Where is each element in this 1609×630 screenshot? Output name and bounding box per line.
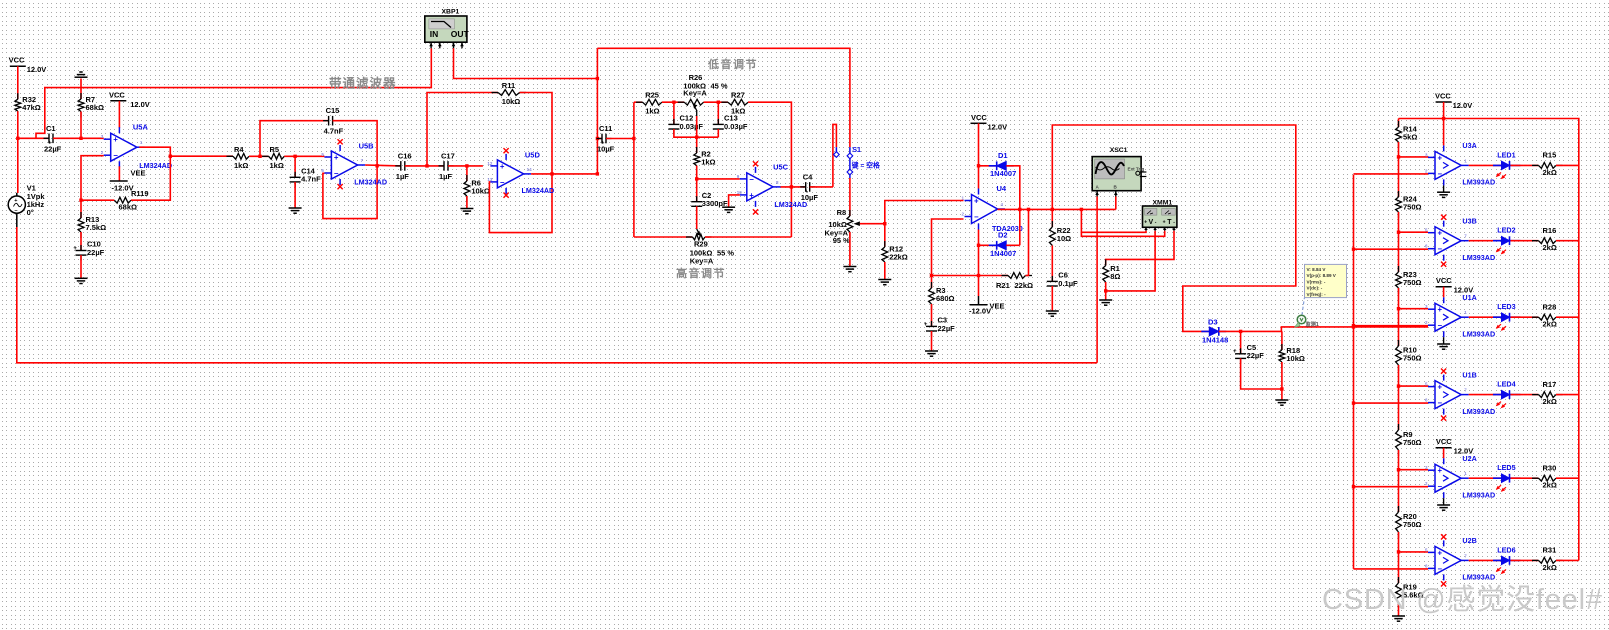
- capacitor C4: [800, 172, 818, 202]
- resistor R12: [882, 241, 908, 268]
- wire: [729, 195, 740, 207]
- no-connect X: [1441, 581, 1446, 586]
- junction: [930, 274, 933, 277]
- wire: [1051, 209, 1053, 227]
- svg-text:−: −: [1438, 321, 1443, 330]
- svg-text:+: +: [334, 153, 339, 162]
- svg-text:+: +: [1233, 349, 1237, 355]
- wire: [696, 206, 698, 229]
- wire: [1219, 327, 1428, 332]
- capacitor C1: [44, 124, 62, 154]
- wire: [489, 93, 552, 233]
- wire: [705, 236, 791, 238]
- wire: [884, 224, 886, 247]
- wire gnd stem: [1443, 498, 1445, 505]
- svg-text:2kΩ: 2kΩ: [1543, 481, 1557, 490]
- svg-text:LM393AD: LM393AD: [1462, 253, 1495, 262]
- junction: [1352, 485, 1355, 488]
- svg-text:VCC: VCC: [9, 56, 25, 65]
- svg-text:−: −: [1438, 169, 1443, 178]
- wire: [1443, 448, 1445, 459]
- wire: [1469, 316, 1502, 318]
- junction: [596, 77, 599, 80]
- label treble title: [676, 266, 726, 280]
- svg-text:R31: R31: [1543, 546, 1557, 555]
- svg-text:LM393AD: LM393AD: [1462, 573, 1495, 582]
- resistor R32: [15, 93, 41, 117]
- no-connect X: [1441, 262, 1446, 267]
- svg-text:C11: C11: [599, 124, 612, 133]
- svg-text:+: +: [749, 191, 754, 200]
- wire: [80, 232, 82, 251]
- op-amp U2A: [1425, 458, 1469, 498]
- ground: [925, 351, 938, 356]
- VCC symbol: [971, 113, 1008, 132]
- wire gnd stem: [1443, 337, 1445, 344]
- svg-text:键 = 空格: 键 = 空格: [851, 160, 880, 169]
- wire: [139, 147, 170, 156]
- svg-text:+: +: [14, 198, 17, 204]
- capacitor C6: [1047, 271, 1078, 292]
- wire: [294, 156, 296, 177]
- svg-text:R17: R17: [1543, 380, 1557, 389]
- capacitor C2: [691, 191, 728, 212]
- junction: [1397, 384, 1400, 387]
- svg-text:45 %: 45 %: [711, 81, 728, 90]
- wire: [1399, 119, 1579, 561]
- wire: [1469, 164, 1502, 166]
- wire: [1511, 240, 1539, 242]
- op-amp U3B: [1425, 221, 1469, 261]
- svg-text:12.0V: 12.0V: [130, 100, 150, 109]
- svg-text:750Ω: 750Ω: [1403, 438, 1422, 447]
- wire: [18, 137, 49, 139]
- svg-text:4.7nF: 4.7nF: [301, 175, 321, 184]
- svg-text:D2: D2: [998, 231, 1008, 240]
- svg-text:R21: R21: [996, 281, 1010, 290]
- label LED6: [1497, 545, 1515, 554]
- wire: [466, 196, 468, 209]
- switch S1: [834, 145, 880, 178]
- wire: [80, 79, 82, 100]
- wire: [1556, 164, 1579, 166]
- no-connect X: [504, 193, 509, 198]
- LED LED3: [1493, 313, 1521, 331]
- junction: [1027, 208, 1030, 211]
- resistor R6: [464, 175, 490, 202]
- wire: [810, 186, 833, 188]
- wire gnd stem: [1443, 185, 1445, 192]
- label LED5: [1497, 463, 1515, 472]
- wire: [365, 164, 401, 167]
- wire: [704, 101, 728, 103]
- wire: [849, 178, 851, 216]
- label bass title: [707, 57, 758, 71]
- wire: [1398, 142, 1400, 197]
- svg-text:680Ω: 680Ω: [936, 294, 955, 303]
- svg-text:R8: R8: [837, 208, 847, 217]
- svg-text:T: T: [1167, 219, 1172, 226]
- wire: [979, 275, 1009, 277]
- LED LED1: [1493, 161, 1521, 179]
- wire: [781, 186, 806, 188]
- wire: [405, 165, 444, 167]
- wire: [1511, 164, 1539, 166]
- junction: [16, 137, 19, 140]
- svg-text:8Ω: 8Ω: [1110, 272, 1120, 281]
- diode D2: [989, 231, 1017, 259]
- svg-text:+: +: [974, 197, 979, 206]
- svg-text:带通滤波器: 带通滤波器: [329, 76, 397, 91]
- resistor R16: [1532, 226, 1563, 252]
- VEE symbol: [110, 181, 134, 193]
- wire: [1354, 248, 1429, 250]
- svg-text:U5C: U5C: [773, 163, 789, 172]
- svg-text:R16: R16: [1543, 226, 1557, 235]
- svg-text:12.0V: 12.0V: [1454, 447, 1474, 456]
- instrument XBP1 bode plotter: [425, 8, 470, 48]
- label LED3: [1497, 302, 1515, 311]
- wire: [674, 129, 718, 137]
- svg-text:2kΩ: 2kΩ: [1543, 397, 1557, 406]
- svg-text:12.0V: 12.0V: [1454, 286, 1474, 295]
- resistor R20: [1396, 506, 1422, 538]
- svg-text:22µF: 22µF: [938, 324, 956, 333]
- svg-text:+: +: [1438, 305, 1443, 314]
- wire: [1051, 286, 1053, 311]
- svg-text:−: −: [1438, 399, 1443, 408]
- wire: [1106, 231, 1155, 291]
- wire: [885, 201, 964, 224]
- svg-text:10kΩ: 10kΩ: [502, 97, 521, 106]
- junction: [1352, 324, 1355, 327]
- wire: [1398, 450, 1400, 512]
- potentiometer R8: [825, 208, 860, 245]
- svg-text:VEE: VEE: [990, 302, 1005, 311]
- wire: [1556, 316, 1579, 318]
- svg-text:D3: D3: [1208, 318, 1218, 327]
- resistor R21: [996, 273, 1033, 290]
- wire: [860, 223, 885, 225]
- wire: [673, 102, 675, 124]
- svg-text:+: +: [1438, 229, 1443, 238]
- capacitor C11: [597, 124, 615, 154]
- svg-text:R29: R29: [694, 240, 708, 249]
- svg-text:+: +: [1438, 548, 1443, 557]
- wire: [1556, 394, 1579, 396]
- wire: [1096, 197, 1098, 363]
- wire: [696, 137, 698, 153]
- wire: [1511, 316, 1539, 318]
- svg-text:22µF: 22µF: [44, 144, 62, 153]
- junction: [550, 172, 553, 175]
- wire: [596, 48, 598, 174]
- resistor R3: [929, 282, 955, 310]
- svg-text:低音调节: 低音调节: [707, 57, 758, 71]
- wire: [17, 66, 19, 99]
- resistor R1: [1103, 260, 1121, 289]
- svg-text:LM393AD: LM393AD: [1462, 178, 1495, 187]
- wire: [17, 227, 1097, 363]
- svg-text:10µF: 10µF: [801, 193, 819, 202]
- wire: [260, 121, 329, 157]
- wire: [1354, 568, 1429, 570]
- wire: [1398, 288, 1400, 346]
- op-amp U5C: [737, 167, 781, 207]
- wire: [633, 102, 635, 237]
- svg-text:−: −: [749, 175, 754, 184]
- svg-text:R28: R28: [1543, 302, 1557, 311]
- capacitor C3: [924, 316, 955, 337]
- resistor R22: [1049, 221, 1071, 252]
- svg-text:LED1: LED1: [1497, 150, 1515, 159]
- junction: [977, 274, 980, 277]
- wire: [1399, 308, 1429, 310]
- svg-text:U2B: U2B: [1462, 536, 1476, 545]
- svg-text:D1: D1: [998, 151, 1008, 160]
- svg-text:13: 13: [487, 177, 493, 182]
- svg-text:22kΩ: 22kΩ: [889, 253, 908, 262]
- wire: [634, 101, 643, 103]
- svg-text:OUT: OUT: [451, 29, 470, 39]
- svg-text:68kΩ: 68kΩ: [86, 103, 105, 112]
- wire: [53, 137, 104, 139]
- svg-text:U1B: U1B: [1462, 370, 1476, 379]
- svg-text:LM393AD: LM393AD: [1462, 407, 1495, 416]
- probe note box: [1305, 264, 1347, 297]
- wire: [1556, 477, 1579, 479]
- svg-text:1kΩ: 1kΩ: [234, 161, 248, 170]
- resistor R5: [262, 145, 291, 170]
- label U3A: [1462, 141, 1495, 186]
- wire: [932, 219, 964, 288]
- svg-text:C1: C1: [46, 124, 56, 133]
- svg-text:IN: IN: [430, 29, 439, 39]
- junction: [695, 177, 698, 180]
- svg-text:R5: R5: [270, 145, 280, 154]
- svg-text:R27: R27: [731, 91, 745, 100]
- svg-text:1N4148: 1N4148: [1202, 336, 1228, 345]
- junction: [79, 137, 82, 140]
- ground: [75, 72, 88, 77]
- wire: [454, 48, 598, 78]
- svg-text:−: −: [334, 169, 339, 178]
- svg-text:S1: S1: [852, 145, 861, 154]
- capacitor C17: [439, 151, 455, 181]
- svg-text:22kΩ: 22kΩ: [1015, 281, 1034, 290]
- diode D1: [989, 151, 1017, 178]
- junction: [1239, 330, 1242, 333]
- svg-text:LED2: LED2: [1497, 226, 1515, 235]
- wire: [1354, 173, 1429, 175]
- wire: [1399, 385, 1429, 387]
- svg-text:XMM1: XMM1: [1153, 199, 1173, 206]
- wire: [81, 156, 104, 201]
- svg-text:C16: C16: [398, 151, 412, 160]
- junction: [1018, 208, 1021, 211]
- label LED2: [1497, 226, 1515, 235]
- junction: [1442, 117, 1445, 120]
- wire: [1556, 559, 1579, 561]
- wire: [80, 112, 82, 139]
- svg-text:+: +: [924, 322, 928, 328]
- svg-text:−: −: [500, 178, 505, 187]
- resistor R10: [1396, 340, 1422, 371]
- no-connect X: [753, 209, 758, 214]
- resistor R18: [1279, 344, 1305, 368]
- svg-text:2kΩ: 2kΩ: [1543, 320, 1557, 329]
- svg-text:XBP1: XBP1: [442, 8, 460, 15]
- resistor R19: [1396, 577, 1424, 608]
- svg-text:V(dc): -: V(dc): -: [1307, 286, 1323, 291]
- svg-text:4.7nF: 4.7nF: [324, 127, 344, 136]
- no-connect X: [1441, 534, 1446, 539]
- wire: [998, 208, 1116, 210]
- svg-text:U4: U4: [997, 184, 1007, 193]
- svg-text:LED6: LED6: [1497, 545, 1515, 554]
- wire: [1081, 209, 1146, 232]
- wire: [1281, 362, 1283, 389]
- svg-text:10Ω: 10Ω: [1057, 234, 1071, 243]
- wire: [284, 155, 324, 157]
- no-connect X: [753, 161, 758, 166]
- no-connect X: [1441, 215, 1446, 220]
- junction: [79, 199, 82, 202]
- wire: [1399, 551, 1429, 553]
- wire: [696, 116, 698, 137]
- svg-text:2kΩ: 2kΩ: [1543, 563, 1557, 572]
- svg-text:V(p-p): 8.89 V: V(p-p): 8.89 V: [1307, 273, 1337, 278]
- svg-text:VCC: VCC: [1436, 276, 1452, 285]
- VCC symbol: [1435, 92, 1472, 111]
- wire: [978, 230, 980, 297]
- svg-text:750Ω: 750Ω: [1403, 203, 1422, 212]
- svg-text:LM324AD: LM324AD: [354, 177, 387, 186]
- svg-text:−: −: [974, 213, 979, 222]
- wire VEE stem: [118, 166, 120, 181]
- junction: [1397, 307, 1400, 310]
- wire: [1511, 559, 1539, 561]
- svg-text:R11: R11: [502, 81, 515, 90]
- wire: [531, 173, 597, 175]
- junction: [717, 101, 720, 104]
- VEE symbol: [969, 302, 1005, 316]
- svg-text:高音调节: 高音调节: [676, 266, 726, 280]
- svg-text:22µF: 22µF: [1247, 351, 1265, 360]
- svg-text:U5D: U5D: [525, 151, 541, 160]
- svg-text:+: +: [1438, 466, 1443, 475]
- ground: [1437, 344, 1450, 349]
- junction: [672, 101, 675, 104]
- junction: [596, 137, 599, 140]
- svg-text:1N4007: 1N4007: [990, 249, 1016, 258]
- LED LED2: [1493, 236, 1521, 254]
- wire: [80, 200, 82, 218]
- svg-text:0°: 0°: [27, 208, 34, 217]
- junction: [1397, 155, 1400, 158]
- wire: [1556, 240, 1579, 242]
- svg-text:XSC1: XSC1: [1110, 147, 1128, 154]
- svg-text:C15: C15: [326, 106, 340, 115]
- svg-text:+: +: [1438, 153, 1443, 162]
- potentiometer R29: [686, 229, 734, 266]
- label U1A: [1462, 293, 1495, 338]
- svg-text:0.1µF: 0.1µF: [1058, 279, 1078, 288]
- svg-text:10kΩ: 10kΩ: [1286, 354, 1305, 363]
- junction: [1352, 401, 1355, 404]
- wire: [466, 166, 468, 181]
- op-amp U1A: [1425, 297, 1469, 337]
- svg-text:7.5kΩ: 7.5kΩ: [86, 223, 107, 232]
- svg-text:U5A: U5A: [133, 123, 149, 132]
- op-amp U5A: [101, 127, 145, 167]
- watermark: [1322, 583, 1603, 616]
- wire: [131, 156, 170, 200]
- svg-text:12.0V: 12.0V: [988, 122, 1008, 131]
- svg-text:LM393AD: LM393AD: [1462, 490, 1495, 499]
- svg-text:Key=A: Key=A: [690, 257, 714, 266]
- junction: [169, 155, 172, 158]
- capacitor C15: [323, 106, 344, 136]
- svg-text:+: +: [1144, 220, 1147, 226]
- wire: [1354, 486, 1429, 488]
- svg-text:5kΩ: 5kΩ: [1403, 133, 1417, 142]
- svg-text:R119: R119: [131, 189, 149, 198]
- capacitor C10: [73, 240, 104, 261]
- LED LED6: [1493, 556, 1521, 574]
- svg-text:750Ω: 750Ω: [1403, 520, 1422, 529]
- op-amp U5D: [487, 154, 532, 194]
- svg-text:VCC: VCC: [109, 90, 125, 99]
- svg-text:V: 8.84 V: V: 8.84 V: [1307, 267, 1327, 272]
- svg-text:V(freq): -: V(freq): -: [1307, 292, 1327, 297]
- no-connect X: [504, 148, 509, 153]
- resistor R28: [1532, 302, 1563, 328]
- wire: [1052, 125, 1296, 331]
- svg-text:1N4007: 1N4007: [990, 169, 1016, 178]
- wire: [849, 232, 851, 267]
- wire: [1026, 209, 1029, 275]
- junction: [1051, 208, 1054, 211]
- svg-text:12: 12: [487, 161, 493, 166]
- svg-text:U5B: U5B: [359, 142, 375, 151]
- wire: [833, 124, 837, 186]
- resistor R17: [1532, 380, 1563, 406]
- svg-text:CSDN @感觉没feel#: CSDN @感觉没feel#: [1322, 583, 1603, 616]
- wire: [1115, 197, 1117, 210]
- junction: [596, 172, 599, 175]
- resistor R11: [492, 81, 527, 106]
- ground: [1099, 300, 1112, 305]
- label U2B: [1462, 536, 1495, 581]
- wire: [294, 182, 296, 208]
- wire: [448, 165, 483, 167]
- junction: [1104, 289, 1107, 292]
- wire: [979, 165, 997, 167]
- resistor R31: [1532, 546, 1563, 572]
- svg-text:V(rms): -: V(rms): -: [1307, 279, 1326, 284]
- label U5D: [522, 151, 555, 196]
- label LED4: [1497, 380, 1515, 389]
- ground: [1046, 311, 1059, 316]
- wire: [931, 331, 933, 351]
- svg-text:14: 14: [527, 167, 533, 172]
- wire: [1051, 246, 1053, 282]
- wire: [978, 123, 980, 188]
- resistor R15: [1532, 151, 1563, 177]
- svg-text:+: +: [113, 135, 118, 144]
- svg-text:C4: C4: [803, 172, 813, 181]
